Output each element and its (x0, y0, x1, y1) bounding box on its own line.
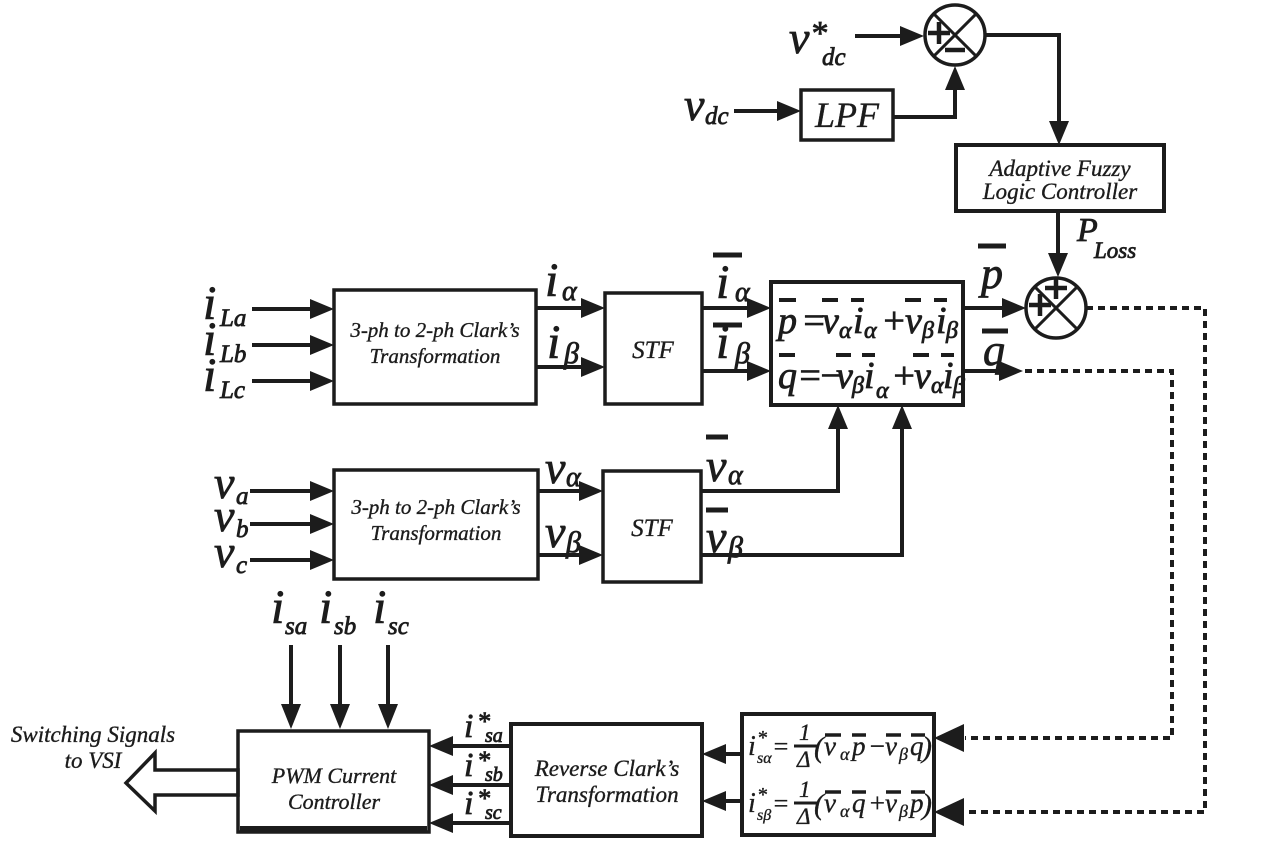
wire i*sa RevClark to PWM (429, 736, 511, 756)
label vbar_alpha (706, 437, 744, 491)
wire vb to Clark2 (250, 514, 334, 534)
label v_alpha (545, 442, 582, 493)
svg-text:β: β (898, 744, 908, 764)
svg-text:to VSI: to VSI (65, 748, 123, 773)
label vc (214, 526, 247, 579)
svg-text:−: − (868, 731, 886, 761)
label i*sc (464, 784, 502, 824)
svg-text:α: α (562, 276, 578, 307)
label iLb (203, 313, 246, 368)
svg-text:+: + (891, 355, 917, 397)
wire v_beta Clark2 to STF2 (538, 545, 603, 565)
wire isc down to PWM (378, 645, 398, 729)
wire i_alpha Clark1 to STF1 (536, 298, 605, 318)
block AFLC Adaptive Fuzzy Logic Controller (956, 145, 1164, 211)
wire va to Clark2 (250, 481, 334, 501)
svg-text:PWM Current: PWM Current (271, 763, 397, 788)
svg-text:p: p (978, 249, 1003, 298)
svg-text:Controller: Controller (288, 789, 381, 814)
label isa (271, 581, 307, 640)
svg-text:i: i (203, 349, 216, 402)
label ibar_alpha (713, 255, 751, 309)
svg-text:Lc: Lc (219, 377, 245, 404)
summing junction S1 (925, 5, 985, 65)
svg-text:v: v (836, 355, 853, 397)
svg-text:i: i (716, 256, 729, 309)
label isb (319, 581, 356, 640)
svg-text:a: a (236, 483, 249, 510)
block arrow to VSI (126, 753, 238, 811)
label va (214, 457, 249, 510)
svg-text:Adaptive Fuzzy: Adaptive Fuzzy (987, 156, 1131, 181)
svg-text:sa: sa (285, 613, 307, 640)
svg-text:β: β (898, 801, 908, 821)
svg-text:*: * (757, 727, 767, 749)
macrons eq isbeta (825, 790, 925, 794)
svg-text:Logic Controller: Logic Controller (982, 179, 1138, 204)
svg-text:α: α (840, 744, 850, 764)
svg-text:i: i (716, 316, 729, 369)
svg-text:b: b (236, 516, 249, 543)
wire v_alpha Clark2 to STF2 (538, 481, 603, 501)
svg-text:v: v (905, 300, 922, 342)
wire vc to Clark2 (250, 550, 334, 570)
svg-text:i: i (464, 785, 473, 822)
label i_alpha (545, 254, 578, 307)
svg-text:Transformation: Transformation (370, 344, 501, 368)
svg-text:q: q (778, 355, 797, 397)
svg-text:α: α (840, 801, 850, 821)
label vdc (684, 79, 729, 130)
svg-text:β: β (921, 318, 934, 344)
svg-text:sb: sb (485, 764, 503, 786)
label iLc (203, 349, 245, 404)
wire vdc to LPF (734, 101, 801, 121)
wire isb down to PWM (330, 645, 350, 729)
svg-text:v: v (706, 440, 727, 491)
svg-text:i: i (853, 300, 864, 342)
svg-text:β: β (727, 531, 743, 564)
wire vbar_alpha STF2 up to pq box (701, 405, 848, 491)
svg-text:STF: STF (631, 515, 673, 542)
svg-text:i: i (464, 747, 473, 784)
equation p = v_a i_a + v_b i_b (775, 300, 958, 344)
label vbar_beta (706, 510, 743, 564)
svg-text:i: i (319, 581, 332, 634)
svg-text:i: i (748, 731, 756, 762)
block Clark1 3-ph to 2-ph Clark's Transformation (334, 290, 536, 404)
svg-text:i: i (748, 788, 756, 819)
svg-text:v: v (684, 79, 705, 130)
svg-text:dc: dc (705, 103, 729, 130)
arrowhead dashed q (934, 724, 964, 752)
svg-text:sβ: sβ (757, 807, 771, 824)
label vb (214, 490, 249, 543)
block isab equation box (742, 714, 934, 835)
svg-text:La: La (219, 305, 246, 332)
svg-text:1: 1 (799, 720, 811, 745)
wire eqbox to RevClark row2 (702, 791, 742, 811)
svg-text:v: v (545, 506, 566, 557)
equation i*salpha (748, 720, 932, 772)
svg-text:1: 1 (799, 777, 811, 802)
svg-text:=: = (772, 789, 790, 818)
svg-text:v: v (545, 442, 566, 493)
block STF1 (605, 293, 702, 404)
svg-text:α: α (839, 318, 852, 344)
svg-text:β: β (945, 318, 958, 344)
label qbar (982, 326, 1008, 375)
dashed feedback q to isa equation (965, 371, 1172, 738)
wire v*dc to summer S1 (855, 26, 924, 46)
svg-text:α: α (864, 318, 877, 344)
svg-text:Transformation: Transformation (371, 521, 502, 545)
svg-text:*: * (757, 784, 767, 806)
svg-text:v: v (789, 12, 810, 63)
svg-text:Δ: Δ (796, 804, 811, 829)
wire i*sb RevClark to PWM (429, 775, 511, 795)
wire LPF to S1 (893, 66, 965, 117)
block Reverse Clark's Transformation (511, 724, 702, 836)
svg-text:3-ph to 2-ph Clark’s: 3-ph to 2-ph Clark’s (350, 495, 520, 519)
wire vbar_beta STF2 up to pq box (701, 405, 912, 555)
equation q = -v_b i_a + v_a i_b (778, 355, 965, 404)
wire ibar_beta STF1 to pq box (702, 361, 771, 381)
svg-text:LPF: LPF (814, 95, 880, 135)
wire iLa to Clark1 (252, 299, 334, 319)
svg-text:STF: STF (632, 337, 674, 364)
svg-text:i: i (271, 581, 284, 634)
svg-text:i: i (864, 355, 875, 397)
wire iLb to Clark1 (252, 335, 334, 355)
svg-text:+: + (881, 300, 907, 342)
svg-text:=: = (772, 732, 790, 761)
svg-text:3-ph to 2-ph Clark’s: 3-ph to 2-ph Clark’s (349, 318, 519, 342)
label v*dc (789, 12, 846, 71)
svg-text:dc: dc (822, 44, 846, 71)
svg-text:sα: sα (757, 750, 772, 767)
label P_Loss (1076, 212, 1136, 263)
svg-text:β: β (952, 373, 965, 399)
block pq equation box (771, 282, 963, 405)
label pbar (978, 246, 1006, 298)
svg-text:sc: sc (388, 613, 409, 640)
svg-text:α: α (728, 460, 744, 491)
equation i*sbeta (748, 777, 932, 829)
svg-text:sb: sb (334, 613, 356, 640)
label i*sb (464, 746, 503, 786)
wire isa down to PWM (281, 645, 301, 729)
label iLa (203, 277, 246, 332)
label Switching Signals to VSI (11, 722, 175, 773)
wire AFLC to S2 (1048, 211, 1068, 277)
svg-text:v: v (914, 355, 931, 397)
svg-text:v: v (822, 300, 839, 342)
block Clark2 3-ph to 2-ph Clark's Transformation (334, 470, 538, 579)
svg-text:p: p (775, 300, 797, 342)
svg-text:c: c (236, 552, 247, 579)
block PWM Current Controller (238, 731, 429, 833)
label isc (373, 581, 409, 640)
label i_beta (547, 316, 579, 370)
svg-text:Switching Signals: Switching Signals (11, 722, 175, 747)
summing junction S2 (1026, 277, 1086, 338)
wire i*sc RevClark to PWM (429, 813, 511, 833)
wire pbar to S2 (963, 298, 1026, 318)
macrons eq isalpha (825, 733, 925, 737)
wire iLc to Clark1 (252, 371, 334, 391)
svg-text:i: i (943, 355, 954, 397)
wire i_beta Clark1 to STF1 (536, 357, 605, 377)
label i*sa (464, 707, 503, 747)
svg-text:v: v (214, 526, 235, 577)
arrowhead dashed p (934, 798, 964, 826)
svg-text:Δ: Δ (796, 747, 811, 772)
svg-text:i: i (936, 300, 947, 342)
svg-text:i: i (547, 316, 560, 369)
dashed feedback p to isb equation (965, 308, 1205, 812)
wire qbar out (963, 361, 1023, 381)
svg-text:i: i (464, 708, 473, 745)
svg-text:Transformation: Transformation (535, 782, 678, 807)
svg-text:sa: sa (485, 725, 503, 747)
svg-text:i: i (545, 254, 558, 307)
block STF2 (603, 471, 701, 582)
svg-text:Reverse Clark’s: Reverse Clark’s (534, 756, 680, 781)
label v_beta (545, 506, 581, 559)
wire eqbox to RevClark row1 (702, 744, 742, 764)
svg-text:β: β (851, 373, 864, 399)
svg-text:sc: sc (485, 802, 502, 824)
svg-text:α: α (876, 378, 889, 404)
label ibar_beta (713, 316, 750, 370)
svg-text:Loss: Loss (1093, 238, 1136, 263)
wire ibar_alpha STF1 to pq box (702, 298, 771, 318)
wire S1 to AFLC (984, 35, 1069, 145)
svg-text:i: i (373, 581, 386, 634)
block LPF (801, 90, 893, 140)
svg-text:+: + (868, 788, 886, 818)
svg-text:Lb: Lb (219, 341, 246, 368)
